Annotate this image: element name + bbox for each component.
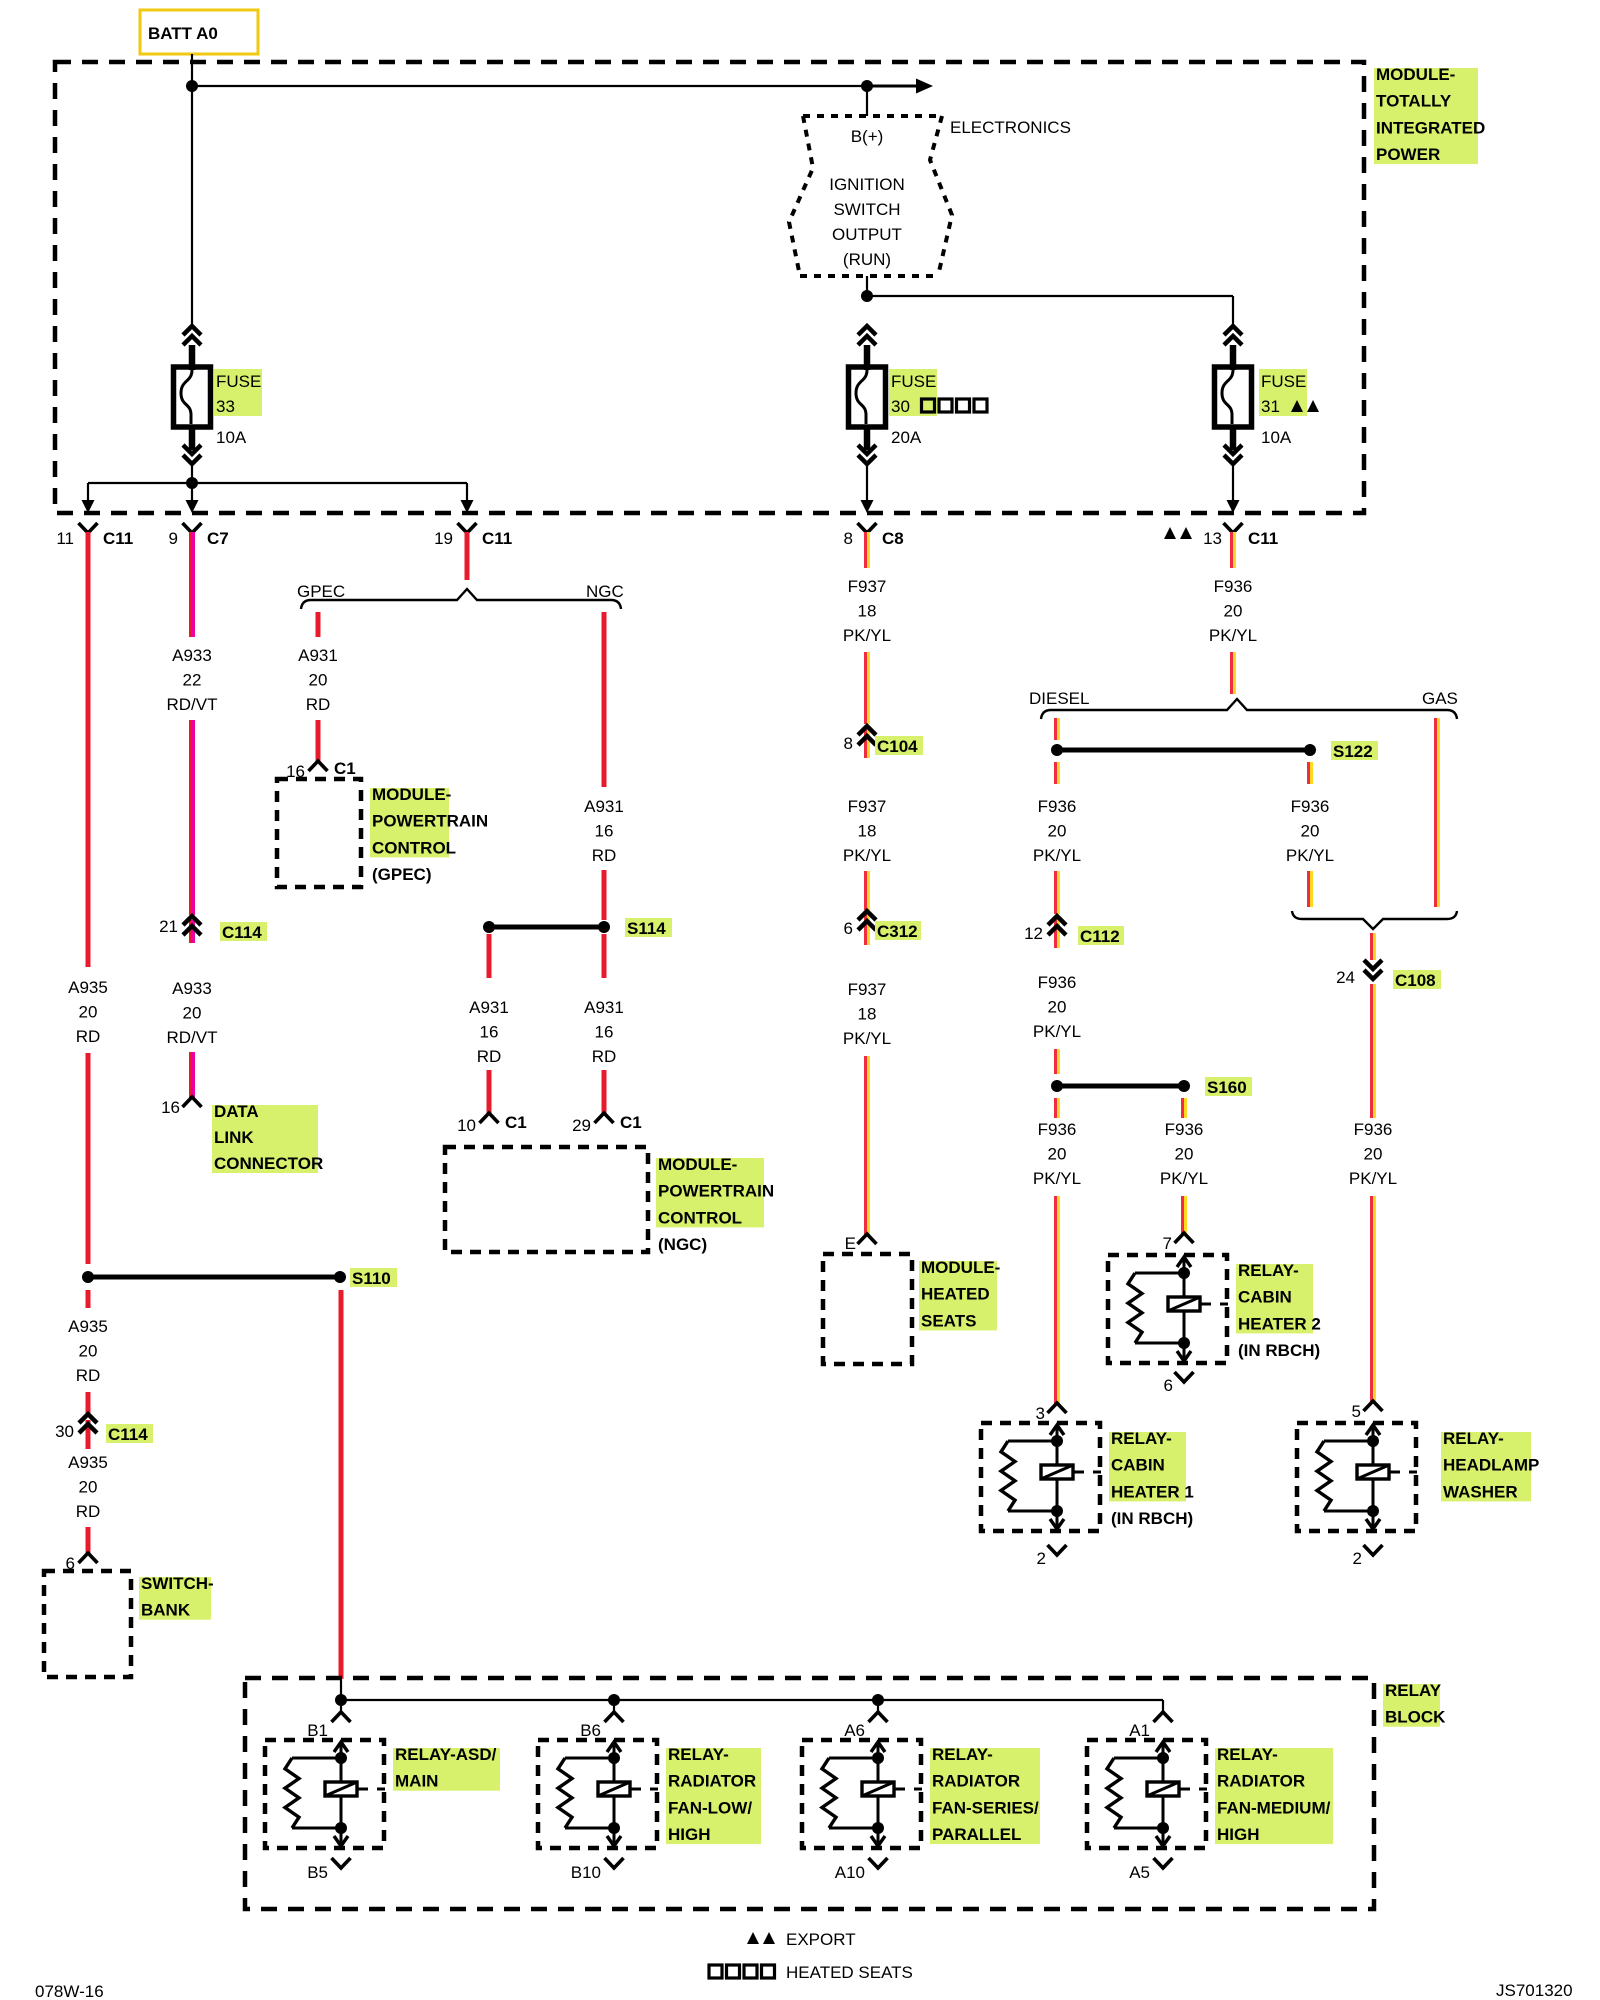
svg-text:5: 5 [1352, 1402, 1361, 1421]
svg-text:A931: A931 [469, 998, 509, 1017]
svg-text:C114: C114 [108, 1425, 148, 1444]
svg-text:A933: A933 [172, 646, 212, 665]
svg-text:TOTALLY: TOTALLY [1376, 92, 1452, 111]
label wire F937 18 PK/YL mid [843, 797, 891, 865]
node fuse 33 branch junction [186, 477, 198, 489]
wire fuse 31 output [1232, 464, 1234, 502]
inline connector C114 pin 21 [159, 916, 201, 943]
svg-text:F937: F937 [848, 980, 887, 999]
wire left leg to C1-10 [487, 1070, 492, 1114]
svg-text:30: 30 [891, 397, 910, 416]
ignition switch text [829, 175, 905, 269]
svg-text:B1: B1 [307, 1721, 328, 1740]
svg-text:OUTPUT: OUTPUT [832, 225, 902, 244]
svg-text:HEATER 2: HEATER 2 [1238, 1314, 1321, 1333]
svg-text:BANK: BANK [141, 1601, 191, 1620]
svg-text:A931: A931 [298, 646, 338, 665]
svg-text:CABIN: CABIN [1111, 1456, 1165, 1475]
wire below S160 left [1054, 1098, 1060, 1118]
wire gas branch [1434, 718, 1440, 907]
label S114 [625, 918, 672, 938]
svg-text:C114: C114 [222, 923, 262, 942]
svg-text:33: 33 [216, 397, 235, 416]
connector pin B5 relay block [307, 1858, 350, 1882]
label MODULE-POWERTRAIN CONTROL (NGC) [656, 1155, 774, 1254]
brace split GPEC/NGC [301, 589, 621, 609]
svg-text:21: 21 [159, 917, 178, 936]
wire below S122 right [1307, 762, 1313, 784]
wire S122 right to merge brace [1307, 871, 1313, 907]
svg-text:GPEC: GPEC [297, 582, 345, 601]
svg-text:13: 13 [1203, 529, 1222, 548]
label wire A931 16 RD [584, 797, 624, 865]
svg-text:PK/YL: PK/YL [1033, 1022, 1081, 1041]
svg-text:RELAY-: RELAY- [1111, 1429, 1172, 1448]
arrow to C11 pin 11 [82, 500, 95, 513]
svg-text:20: 20 [1364, 1145, 1383, 1164]
wire to C312 [864, 871, 870, 910]
wire A933 22 RD/VT from C7 [189, 532, 195, 637]
label SWITCH-BANK [139, 1574, 214, 1620]
svg-text:F936: F936 [1214, 577, 1253, 596]
label S122 [1331, 741, 1378, 761]
svg-text:16: 16 [161, 1098, 180, 1117]
label wire F936 20 PK/YL to washer relay [1349, 1120, 1397, 1188]
connector C11 pin 11 [56, 523, 133, 548]
inline connector C114 pin 30 [55, 1414, 97, 1449]
node junction at ignition switch [861, 80, 873, 92]
wire right leg to C1-29 [602, 1070, 607, 1114]
wire to headlamp washer relay [1370, 1196, 1376, 1402]
svg-text:RD: RD [76, 1027, 101, 1046]
svg-text:WASHER: WASHER [1443, 1482, 1518, 1501]
svg-text:12: 12 [1024, 924, 1043, 943]
svg-text:20: 20 [1301, 822, 1320, 841]
svg-text:PK/YL: PK/YL [1033, 1169, 1081, 1188]
wire diesel stub [1054, 718, 1060, 740]
svg-text:10A: 10A [1261, 428, 1292, 447]
svg-text:PK/YL: PK/YL [843, 846, 891, 865]
svg-text:S160: S160 [1207, 1078, 1247, 1097]
relay headlamp washer [1297, 1423, 1417, 1531]
svg-text:F937: F937 [848, 577, 887, 596]
svg-text:C312: C312 [877, 922, 918, 941]
connector pin 5 headlamp washer [1352, 1401, 1383, 1421]
svg-text:18: 18 [858, 822, 877, 841]
label S160 [1205, 1077, 1252, 1097]
svg-text:E: E [845, 1234, 856, 1253]
svg-text:20: 20 [1048, 1145, 1067, 1164]
connector C7 pin 9 [169, 523, 229, 548]
connector pin A5 relay block [1129, 1858, 1172, 1882]
svg-text:RD/VT: RD/VT [167, 1028, 218, 1047]
wire A933 to data link connector [189, 1052, 195, 1098]
wire arrow continuing right (electronics feed) [867, 79, 933, 94]
label wire F936 20 PK/YL to heater1 [1033, 1120, 1081, 1188]
svg-text:RELAY: RELAY [1385, 1681, 1442, 1700]
node bus junction A6 [872, 1694, 884, 1706]
svg-text:PK/YL: PK/YL [843, 1029, 891, 1048]
connector pin 16 C1 (GPEC) [286, 759, 356, 781]
inline connector C312 pin 6 [844, 911, 876, 945]
svg-text:RD: RD [306, 695, 331, 714]
wire C108 down [1370, 990, 1376, 1118]
wire F936 20 PK/YL from C11-13 [1230, 532, 1236, 568]
label wire F936 20 PK/YL below C112 [1033, 973, 1081, 1041]
label MODULE-TOTALLY INTEGRATED POWER [1374, 65, 1485, 164]
svg-text:S122: S122 [1333, 742, 1373, 761]
label C112 [1078, 926, 1124, 946]
svg-text:RD/VT: RD/VT [167, 695, 218, 714]
svg-text:8: 8 [844, 529, 853, 548]
svg-text:(IN RBCH): (IN RBCH) [1111, 1509, 1193, 1528]
ignition switch pin B(+) label [851, 127, 884, 146]
label S110 [350, 1268, 397, 1288]
label RELAY-RADIATOR FAN-MEDIUM/HIGH [1215, 1745, 1333, 1844]
arrow to C7 pin 9 [186, 500, 199, 513]
label wire A933 22 RD/VT [167, 646, 218, 714]
svg-text:20: 20 [1048, 822, 1067, 841]
wire merge to C108 [1370, 933, 1376, 960]
ignition switch output (RUN) dashed outline [789, 116, 952, 276]
label wire A935 20 RD below C114 [68, 1453, 108, 1521]
svg-text:C11: C11 [482, 529, 512, 548]
svg-text:A6: A6 [844, 1721, 865, 1740]
connector pin 2 headlamp washer [1353, 1545, 1383, 1568]
label GPEC [297, 582, 345, 601]
inline connector C104 pin 8 [844, 726, 876, 758]
wire below S110 left leg [86, 1290, 91, 1308]
svg-text:CABIN: CABIN [1238, 1288, 1292, 1307]
svg-text:24: 24 [1336, 968, 1355, 987]
connector pin B6 relay block [580, 1712, 623, 1740]
arrow to C11 pin 19 [461, 500, 474, 513]
wire A933 continues to C114 [189, 720, 195, 915]
svg-text:FAN-SERIES/: FAN-SERIES/ [932, 1798, 1039, 1817]
wire to C104 [864, 652, 870, 724]
label RELAY BLOCK [1383, 1681, 1446, 1727]
svg-text:SWITCH: SWITCH [833, 200, 900, 219]
wire A931 16 RD (NGC) [602, 612, 607, 787]
svg-text:RADIATOR: RADIATOR [1217, 1772, 1305, 1791]
wire to C114 pin 30 [86, 1392, 91, 1416]
svg-text:PK/YL: PK/YL [1033, 846, 1081, 865]
svg-text:20: 20 [1175, 1145, 1194, 1164]
svg-text:BLOCK: BLOCK [1385, 1708, 1446, 1727]
svg-text:C8: C8 [882, 529, 904, 548]
svg-text:CONTROL: CONTROL [658, 1208, 742, 1227]
svg-text:C104: C104 [877, 737, 918, 756]
connector pin B10 relay block [571, 1858, 624, 1882]
svg-text:C7: C7 [207, 529, 229, 548]
wire relay block bus [341, 1678, 1163, 1712]
wire branch line to C11-11 and C11-19 [88, 483, 467, 502]
svg-text:CONTROL: CONTROL [372, 838, 456, 857]
svg-text:C11: C11 [103, 529, 133, 548]
wire F937 18 PK/YL from C8 [864, 532, 870, 568]
svg-text:(GPEC): (GPEC) [372, 865, 432, 884]
connector pin A6 relay block [844, 1712, 887, 1740]
svg-text:F936: F936 [1165, 1120, 1204, 1139]
svg-text:MODULE-: MODULE- [658, 1155, 737, 1174]
svg-text:ELECTRONICS: ELECTRONICS [950, 118, 1071, 137]
svg-text:C108: C108 [1395, 971, 1436, 990]
wire A931 20 RD (GPEC) [316, 612, 321, 637]
svg-text:RELAY-ASD/: RELAY-ASD/ [395, 1745, 497, 1764]
label RELAY-CABIN HEATER 2 (IN RBCH) [1236, 1261, 1321, 1360]
svg-text:PK/YL: PK/YL [1286, 846, 1334, 865]
inline connector C112 pin 12 [1024, 916, 1066, 948]
svg-text:F936: F936 [1038, 973, 1077, 992]
svg-text:MAIN: MAIN [395, 1772, 438, 1791]
node bus junction B1 [335, 1694, 347, 1706]
svg-text:HEATED: HEATED [921, 1285, 990, 1304]
svg-text:SWITCH-: SWITCH- [141, 1574, 214, 1593]
splice S110 [82, 1271, 346, 1283]
label RELAY-RADIATOR FAN-LOW/HIGH [666, 1745, 761, 1844]
svg-text:A931: A931 [584, 998, 624, 1017]
wire to heated seats module [864, 1056, 870, 1237]
label DIESEL [1029, 689, 1089, 708]
svg-text:20A: 20A [891, 428, 922, 447]
svg-text:(IN RBCH): (IN RBCH) [1238, 1341, 1320, 1360]
svg-text:RELAY-: RELAY- [932, 1745, 993, 1764]
svg-text:POWERTRAIN: POWERTRAIN [658, 1182, 774, 1201]
battery feed label box BATT A0 [140, 10, 258, 54]
label RELAY-HEADLAMP WASHER [1441, 1429, 1539, 1501]
legend export triangles [747, 1930, 856, 1949]
relay cabin heater 1 (in RBCH) [981, 1423, 1101, 1531]
wire to switch bank [86, 1527, 91, 1554]
label RELAY-ASD/MAIN [393, 1745, 500, 1791]
connector pin 16 data link [161, 1097, 201, 1117]
svg-text:MODULE-: MODULE- [921, 1258, 1000, 1277]
connector C8 pin 8 [844, 523, 904, 548]
svg-text:RELAY-: RELAY- [668, 1745, 729, 1764]
svg-text:PK/YL: PK/YL [1349, 1169, 1397, 1188]
label sheet number 078W-16 [35, 1982, 104, 2000]
relay RELAY-RADIATOR FAN-MEDIUM/HIGH [1087, 1740, 1207, 1848]
brace merge to C108 [1292, 911, 1457, 929]
node junction below ignition switch [861, 290, 873, 302]
svg-text:20: 20 [183, 1004, 202, 1023]
svg-text:HEADLAMP: HEADLAMP [1443, 1456, 1539, 1475]
svg-text:3: 3 [1036, 1404, 1045, 1423]
svg-text:HEATER 1: HEATER 1 [1111, 1482, 1194, 1501]
svg-text:18: 18 [858, 1005, 877, 1024]
svg-text:HIGH: HIGH [668, 1825, 711, 1844]
label wire F936 20 PK/YL [1209, 577, 1257, 645]
label GAS [1422, 689, 1458, 708]
wire A935 continues [86, 1053, 91, 1264]
svg-text:(RUN): (RUN) [843, 250, 891, 269]
label ELECTRONICS [950, 118, 1071, 137]
svg-text:2: 2 [1037, 1549, 1046, 1568]
label DATA LINK CONNECTOR [212, 1102, 323, 1173]
svg-text:22: 22 [183, 671, 202, 690]
wire S114 left leg [487, 934, 492, 978]
relay cabin heater 2 (in RBCH) [1108, 1255, 1228, 1363]
svg-text:PARALLEL: PARALLEL [932, 1825, 1021, 1844]
svg-text:PK/YL: PK/YL [1160, 1169, 1208, 1188]
node junction on batt feed [186, 80, 198, 92]
svg-text:6: 6 [1164, 1376, 1173, 1395]
svg-text:FAN-LOW/: FAN-LOW/ [668, 1798, 752, 1817]
relay RELAY-RADIATOR FAN-LOW/HIGH [538, 1740, 658, 1848]
svg-text:RD: RD [592, 846, 617, 865]
svg-text:F936: F936 [1038, 1120, 1077, 1139]
wire run bus to fuse 31 [867, 296, 1233, 327]
svg-text:S110: S110 [352, 1269, 391, 1288]
svg-text:A10: A10 [835, 1863, 865, 1882]
legend heated seats squares [709, 1963, 913, 1982]
label FUSE 31 10A with export triangles [1259, 369, 1319, 447]
svg-text:HEATED SEATS: HEATED SEATS [786, 1963, 913, 1982]
svg-text:A933: A933 [172, 979, 212, 998]
module NGC dashed outline [445, 1147, 648, 1252]
svg-text:A935: A935 [68, 1453, 108, 1472]
svg-text:C112: C112 [1080, 927, 1120, 946]
relay block dashed outline [245, 1678, 1374, 1909]
svg-text:A5: A5 [1129, 1863, 1150, 1882]
svg-text:2: 2 [1353, 1549, 1362, 1568]
wire ignition switch output [866, 276, 868, 296]
svg-text:RELAY-: RELAY- [1217, 1745, 1278, 1764]
svg-text:PK/YL: PK/YL [1209, 626, 1257, 645]
label MODULE-HEATED SEATS [919, 1258, 1000, 1330]
svg-text:16: 16 [595, 822, 614, 841]
svg-text:7: 7 [1163, 1234, 1172, 1253]
wire fuse 33 output [191, 464, 193, 483]
svg-text:GAS: GAS [1422, 689, 1458, 708]
fuse 30 [849, 326, 886, 464]
node bus junction B6 [608, 1694, 620, 1706]
connector pin 6 switch bank [66, 1553, 98, 1573]
svg-text:A1: A1 [1129, 1721, 1150, 1740]
svg-text:9: 9 [169, 529, 178, 548]
svg-text:RELAY-: RELAY- [1443, 1429, 1504, 1448]
label C312 [875, 921, 921, 941]
wire to GPEC C1 [316, 720, 321, 762]
label wire A935 20 RD below S110 [68, 1317, 108, 1385]
label wire F936 20 PK/YL gas-side [1286, 797, 1334, 865]
svg-text:B(+): B(+) [851, 127, 884, 146]
wire to diesel/gas brace [1230, 652, 1236, 694]
connector pin 10 C1 [457, 1113, 527, 1135]
wire to cabin heater 2 relay [1181, 1196, 1187, 1234]
label RELAY-RADIATOR FAN-SERIES/PARALLEL [930, 1745, 1040, 1844]
label wire F936 20 PK/YL to heater2 [1160, 1120, 1208, 1188]
splice S114 [483, 921, 610, 933]
svg-text:(NGC): (NGC) [658, 1235, 707, 1254]
svg-text:C1: C1 [334, 759, 356, 778]
svg-text:FUSE: FUSE [891, 372, 936, 391]
svg-text:RADIATOR: RADIATOR [932, 1772, 1020, 1791]
wire below S160 right [1181, 1098, 1187, 1118]
label wire F936 20 PK/YL diesel [1033, 797, 1081, 865]
fuse 33 [174, 326, 211, 464]
connector pin 7 cabin heater 2 [1163, 1233, 1194, 1253]
svg-text:CONNECTOR: CONNECTOR [214, 1154, 323, 1173]
connector C11 pin 19 [434, 523, 512, 548]
svg-text:LINK: LINK [214, 1128, 254, 1147]
label C114 pin21 [220, 922, 267, 942]
connector pin B1 relay block [307, 1712, 350, 1740]
svg-text:C1: C1 [620, 1113, 642, 1132]
relay RELAY-ASD/MAIN [265, 1740, 385, 1848]
svg-text:18: 18 [858, 602, 877, 621]
wire diesel to C112 [1054, 871, 1060, 914]
label C104 [875, 736, 923, 756]
label wire A933 20 RD/VT [167, 979, 218, 1047]
wire top bus to ignition switch feed [192, 85, 867, 87]
connector pin A1 relay block [1129, 1712, 1172, 1740]
svg-text:29: 29 [572, 1116, 591, 1135]
svg-text:RD: RD [76, 1502, 101, 1521]
label FUSE 33 10A [214, 369, 262, 447]
wire diesel to S160 [1054, 1049, 1060, 1074]
svg-text:F936: F936 [1291, 797, 1330, 816]
svg-text:20: 20 [309, 671, 328, 690]
wire to cabin heater 1 relay [1054, 1196, 1060, 1404]
svg-text:JS701320: JS701320 [1496, 1981, 1573, 2000]
label wire A931 16 RD right [584, 998, 624, 1066]
svg-text:RELAY-: RELAY- [1238, 1261, 1299, 1280]
relay RELAY-RADIATOR FAN-SERIES/PARALLEL [802, 1740, 922, 1848]
module heated seats dashed outline [823, 1254, 912, 1364]
svg-text:RD: RD [477, 1047, 502, 1066]
svg-text:DATA: DATA [214, 1102, 259, 1121]
svg-text:F937: F937 [848, 797, 887, 816]
svg-text:MODULE-: MODULE- [372, 785, 451, 804]
splice S122 [1051, 744, 1316, 756]
label wire A931 16 RD left [469, 998, 509, 1066]
wire into ignition switch [866, 86, 868, 116]
svg-text:S114: S114 [627, 919, 666, 938]
svg-text:B5: B5 [307, 1863, 328, 1882]
label wire F937 18 PK/YL low [843, 980, 891, 1048]
fuse 31 [1215, 326, 1252, 464]
label MODULE-POWERTRAIN CONTROL (GPEC) [370, 785, 488, 884]
wire fuse 30 output [866, 464, 868, 502]
svg-text:IGNITION: IGNITION [829, 175, 905, 194]
brace split DIESEL/GAS [1041, 699, 1457, 719]
svg-text:RD: RD [76, 1366, 101, 1385]
wire batt A0 vertical into TIPM [191, 54, 193, 86]
svg-text:B6: B6 [580, 1721, 601, 1740]
module GPEC dashed outline [277, 779, 361, 887]
svg-text:F936: F936 [1038, 797, 1077, 816]
svg-text:6: 6 [844, 919, 853, 938]
svg-text:078W-16: 078W-16 [35, 1982, 104, 2000]
connector pin 29 C1 [572, 1113, 642, 1135]
label drawing id JS701320 [1496, 1981, 1573, 2000]
svg-text:20: 20 [79, 1003, 98, 1022]
svg-text:10A: 10A [216, 428, 247, 447]
svg-text:31: 31 [1261, 397, 1280, 416]
arrow to C11 pin 13 [1227, 500, 1240, 513]
inline connector C108 pin 24 [1336, 960, 1382, 990]
svg-text:RADIATOR: RADIATOR [668, 1772, 756, 1791]
svg-text:PK/YL: PK/YL [843, 626, 891, 645]
module TIPM dashed outline [55, 62, 1364, 513]
wire from C11-19 [465, 532, 470, 580]
svg-text:FUSE: FUSE [216, 372, 261, 391]
connector pin 6 cabin heater 2 [1164, 1372, 1194, 1395]
svg-text:20: 20 [1224, 602, 1243, 621]
svg-text:FAN-MEDIUM/: FAN-MEDIUM/ [1217, 1798, 1331, 1817]
svg-text:20: 20 [1048, 998, 1067, 1017]
